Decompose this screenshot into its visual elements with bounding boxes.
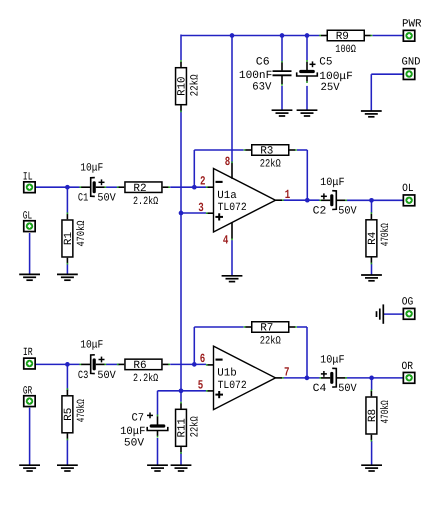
- svg-text:50V: 50V: [124, 437, 145, 449]
- svg-text:22kΩ: 22kΩ: [260, 336, 281, 348]
- svg-text:4: 4: [223, 234, 229, 248]
- svg-text:R4: R4: [367, 231, 379, 245]
- svg-text:R8: R8: [367, 409, 379, 422]
- svg-text:R10: R10: [177, 77, 189, 96]
- svg-text:R1: R1: [63, 232, 75, 246]
- svg-text:2.2kΩ: 2.2kΩ: [133, 373, 158, 385]
- svg-text:TL072: TL072: [218, 380, 247, 392]
- svg-text:50V: 50V: [97, 370, 116, 382]
- svg-text:OL: OL: [402, 183, 414, 195]
- svg-text:R6: R6: [133, 360, 146, 372]
- svg-text:C7: C7: [132, 412, 145, 424]
- svg-text:10μF: 10μF: [80, 162, 103, 174]
- svg-text:10μF: 10μF: [320, 354, 345, 366]
- svg-text:63V: 63V: [252, 81, 272, 93]
- svg-text:25V: 25V: [321, 82, 341, 94]
- svg-text:22kΩ: 22kΩ: [260, 159, 281, 171]
- svg-text:OG: OG: [402, 296, 414, 308]
- svg-text:470kΩ: 470kΩ: [380, 400, 392, 423]
- svg-text:22kΩ: 22kΩ: [190, 74, 202, 96]
- svg-text:R9: R9: [336, 31, 349, 43]
- svg-text:470kΩ: 470kΩ: [76, 399, 88, 422]
- svg-text:C1: C1: [78, 193, 89, 205]
- svg-text:100Ω: 100Ω: [335, 44, 356, 56]
- svg-text:2.2kΩ: 2.2kΩ: [133, 196, 158, 208]
- svg-text:C5: C5: [319, 56, 332, 68]
- svg-text:U1b: U1b: [217, 368, 237, 380]
- svg-text:10μF: 10μF: [320, 177, 345, 189]
- svg-text:470kΩ: 470kΩ: [76, 220, 88, 246]
- svg-text:10μF: 10μF: [80, 340, 103, 352]
- svg-text:10μF: 10μF: [120, 426, 145, 438]
- svg-text:GL: GL: [23, 210, 32, 222]
- svg-text:2: 2: [200, 175, 206, 189]
- svg-text:R11: R11: [177, 418, 189, 438]
- svg-text:R7: R7: [260, 323, 273, 335]
- svg-text:7: 7: [284, 366, 290, 380]
- svg-text:6: 6: [200, 352, 206, 366]
- svg-text:8: 8: [225, 155, 231, 169]
- svg-text:R5: R5: [63, 408, 75, 421]
- svg-text:3: 3: [198, 201, 204, 215]
- svg-text:50V: 50V: [338, 383, 357, 395]
- svg-text:GND: GND: [402, 56, 421, 68]
- svg-text:U1a: U1a: [217, 190, 237, 202]
- svg-text:C6: C6: [256, 57, 270, 69]
- svg-text:OR: OR: [402, 361, 414, 373]
- svg-text:C4: C4: [313, 383, 327, 395]
- svg-text:R3: R3: [260, 146, 273, 158]
- svg-text:IR: IR: [23, 347, 33, 359]
- svg-text:50V: 50V: [338, 205, 357, 217]
- svg-text:22kΩ: 22kΩ: [190, 416, 202, 437]
- svg-text:GR: GR: [23, 386, 33, 398]
- svg-text:470kΩ: 470kΩ: [380, 223, 392, 246]
- svg-text:50V: 50V: [97, 193, 116, 205]
- svg-text:R2: R2: [133, 183, 146, 195]
- svg-text:IL: IL: [23, 171, 33, 183]
- svg-text:5: 5: [198, 379, 204, 393]
- svg-text:C3: C3: [78, 370, 88, 382]
- svg-text:PWR: PWR: [402, 19, 422, 31]
- svg-text:C2: C2: [313, 205, 327, 217]
- svg-text:TL072: TL072: [218, 202, 247, 214]
- svg-text:1: 1: [285, 188, 291, 202]
- svg-text:100nF: 100nF: [239, 70, 272, 82]
